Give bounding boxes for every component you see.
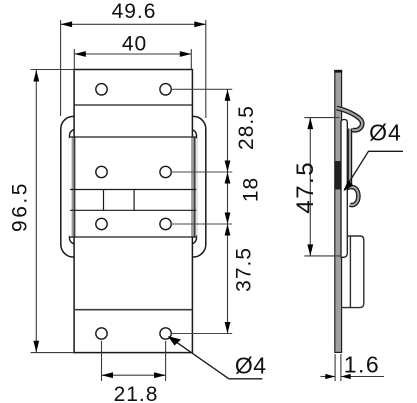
hinge knuckle band bottom line bbox=[70, 209, 196, 211]
leader row4 bbox=[171, 333, 232, 335]
svg-text:28.5: 28.5 bbox=[235, 105, 258, 150]
front diameter leader arrow bbox=[168, 336, 181, 345]
dim 21.8 arrow right bbox=[154, 372, 166, 378]
dim 47.5 line bbox=[309, 118, 311, 256]
dim 21.8 extension right bbox=[165, 341, 167, 381]
dim 40 extension right bbox=[190, 49, 192, 69]
dim 49.6 extension right bbox=[205, 20, 207, 118]
dim 96.5 arrow top bbox=[33, 70, 39, 82]
front diameter label leader bbox=[170, 337, 263, 379]
arrow up at row3 bbox=[225, 224, 231, 236]
flap bottom edge bbox=[70, 236, 197, 238]
knuckle divider 1 bbox=[103, 190, 105, 211]
arrow up at row2 bbox=[225, 172, 231, 184]
flap right shaded edge bbox=[191, 137, 196, 236]
side flap strip bbox=[341, 120, 347, 258]
dim 40 line bbox=[74, 53, 191, 55]
dim 21.8 line bbox=[102, 374, 166, 376]
dim 40 extension left bbox=[73, 49, 75, 69]
arrow down at row3 bbox=[225, 213, 231, 225]
flap left shaded edge bbox=[72, 137, 76, 236]
bottom mounting tab fold line bbox=[74, 309, 192, 311]
side top hook grey core bbox=[337, 108, 363, 130]
top mounting tab fold line bbox=[74, 104, 192, 106]
dim 96.5 arrow bottom bbox=[33, 341, 39, 353]
flap (middle plate) fill bbox=[69, 137, 198, 237]
dim 1.6 extension right bbox=[340, 354, 342, 381]
svg-text:1.6: 1.6 bbox=[344, 351, 380, 377]
bail (latch loop) inner outline bbox=[70, 130, 197, 245]
arrow down at row2 bbox=[225, 161, 231, 173]
side diameter leader arrow bbox=[343, 180, 353, 191]
dim 21.8 extension left bbox=[101, 341, 103, 381]
side diameter label leader bbox=[345, 151, 404, 189]
hole row3 right bbox=[160, 218, 171, 229]
dim 49.6 arrow left bbox=[61, 21, 73, 27]
svg-text:96.5: 96.5 bbox=[9, 181, 32, 232]
hole row1 left bbox=[96, 84, 107, 95]
back plate bbox=[74, 70, 192, 353]
svg-text:47.5: 47.5 bbox=[292, 161, 319, 214]
bail (latch loop) outer outline bbox=[61, 116, 206, 257]
side top hook (bail upper curl) black edge bbox=[337, 108, 363, 130]
svg-text:49.6: 49.6 bbox=[112, 0, 157, 23]
dim 1.6 left line bbox=[321, 376, 336, 378]
side main plate bbox=[335, 70, 342, 352]
dim 47.5 extension bottom bbox=[304, 255, 340, 257]
side lower loop grey core bbox=[350, 129, 359, 206]
dim 47.5 arrow top bbox=[307, 118, 313, 130]
svg-text:40: 40 bbox=[122, 32, 147, 55]
hole row1 right bbox=[160, 84, 171, 95]
knuckle divider 2 bbox=[133, 190, 135, 211]
dim 47.5 arrow bottom bbox=[307, 244, 313, 256]
side plate dark hole section bbox=[334, 161, 341, 190]
dim 96.5 line bbox=[35, 70, 37, 352]
flap left bend line bbox=[73, 137, 75, 237]
hole row2 left bbox=[96, 166, 107, 177]
dim 96.5 extension bottom bbox=[31, 352, 75, 354]
hole row3 left bbox=[96, 218, 107, 229]
leader row1 bbox=[171, 88, 232, 90]
dim 49.6 line bbox=[61, 23, 206, 25]
leader row3 bbox=[171, 223, 232, 225]
dim 47.5 extension top bbox=[304, 117, 339, 119]
hole row4 right bbox=[160, 328, 171, 339]
dim 40 arrow left bbox=[74, 51, 86, 57]
leader row2 bbox=[171, 171, 232, 173]
dim 21.8 arrow left bbox=[102, 372, 114, 378]
svg-text:18: 18 bbox=[240, 177, 263, 202]
svg-text:Ø4: Ø4 bbox=[369, 119, 402, 145]
dim 1.6 right arrow bbox=[341, 374, 351, 379]
dim 96.5 extension top bbox=[31, 69, 75, 71]
flap top edge bbox=[70, 136, 197, 138]
svg-text:Ø4: Ø4 bbox=[235, 353, 267, 379]
dim 49.6 extension left bbox=[60, 20, 62, 116]
side catch bracket bbox=[341, 236, 364, 308]
hinge knuckle band top line bbox=[70, 189, 196, 191]
hole row4 left bbox=[96, 328, 107, 339]
arrow down at row4 bbox=[225, 322, 231, 334]
side lower loop (bail lower bar) black edge bbox=[350, 129, 359, 206]
dim 1.6 extension left bbox=[334, 354, 336, 381]
flap right bend line bbox=[194, 137, 196, 237]
dim 49.6 arrow right bbox=[194, 21, 206, 27]
dim 40 arrow right bbox=[180, 51, 192, 57]
arrow up at row1 bbox=[225, 89, 231, 101]
svg-text:37.5: 37.5 bbox=[233, 247, 256, 292]
right chained dimension line bbox=[227, 89, 229, 333]
svg-text:21.8: 21.8 bbox=[114, 383, 159, 403]
dim 1.6 left arrow bbox=[325, 374, 335, 379]
hole row2 right bbox=[160, 166, 171, 177]
side plate top dark cap bbox=[334, 70, 342, 73]
dim 1.6 right line (underline) bbox=[341, 376, 384, 378]
